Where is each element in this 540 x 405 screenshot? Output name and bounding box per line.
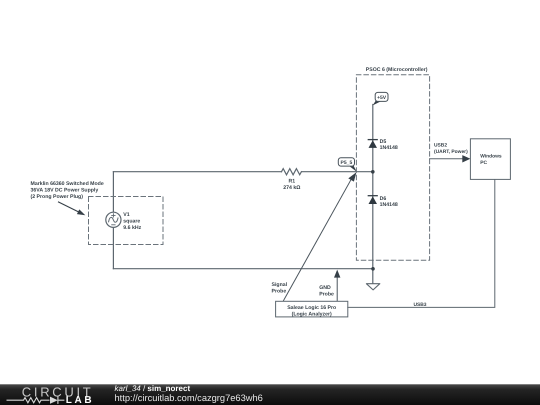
svg-text:V1: V1 bbox=[123, 212, 129, 218]
svg-text:Probe: Probe bbox=[272, 289, 287, 295]
diode D5 bbox=[368, 139, 377, 141]
wire top: V1 branch to P5_5 node bbox=[113, 171, 372, 173]
svg-text:(UART, Power): (UART, Power) bbox=[434, 149, 468, 155]
svg-text:(Logic Analyzer): (Logic Analyzer) bbox=[292, 311, 332, 317]
USB2 wire with arrowhead bbox=[430, 158, 463, 160]
svg-text:USB2: USB2 bbox=[434, 142, 447, 148]
svg-text:+5V: +5V bbox=[377, 95, 387, 101]
svg-text:R1: R1 bbox=[288, 179, 295, 185]
svg-text:http://circuitlab.com/cazgrg7e: http://circuitlab.com/cazgrg7e63wh6 bbox=[115, 393, 263, 403]
net flag P5_5 bbox=[349, 166, 357, 172]
wire bottom: return wire bbox=[113, 268, 373, 270]
svg-text:D6: D6 bbox=[380, 196, 387, 202]
logo diode glyph bbox=[50, 397, 58, 404]
svg-text:USB3: USB3 bbox=[413, 302, 426, 308]
svg-text:Probe: Probe bbox=[319, 292, 334, 298]
voltage source V1 bbox=[106, 212, 121, 227]
PSOC 6 dashed enclosure bbox=[356, 75, 429, 260]
svg-text:1N4148: 1N4148 bbox=[380, 202, 398, 208]
USB3 wire bbox=[348, 179, 495, 307]
diode branch wire bbox=[372, 105, 374, 284]
V1 dashed enclosure bbox=[89, 197, 164, 245]
CircuitLab logo schematic squiggle bbox=[7, 397, 65, 404]
svg-text:PC: PC bbox=[480, 160, 487, 166]
svg-text:1N4148: 1N4148 bbox=[380, 145, 398, 151]
svg-text:GND: GND bbox=[319, 285, 331, 291]
signal probe arrowhead bbox=[348, 172, 356, 181]
svg-text:Signal: Signal bbox=[272, 282, 288, 288]
wire left: V1 branch vertical bbox=[112, 172, 114, 269]
svg-text:P5_5: P5_5 bbox=[341, 160, 353, 166]
svg-text:karl_34 / sim_norect: karl_34 / sim_norect bbox=[115, 384, 191, 393]
GND probe wire with up arrow bbox=[336, 277, 338, 301]
svg-text:PSOC 6 (Microcontroller): PSOC 6 (Microcontroller) bbox=[366, 67, 428, 73]
svg-text:D5: D5 bbox=[380, 139, 387, 145]
ground bbox=[366, 284, 379, 290]
node P5_5 junction dot bbox=[371, 170, 375, 174]
+5V net flag bbox=[373, 101, 381, 106]
Windows PC box bbox=[470, 139, 510, 180]
svg-text:(2 Prong Power Plug): (2 Prong Power Plug) bbox=[31, 194, 84, 200]
svg-text:9.6 kHz: 9.6 kHz bbox=[123, 225, 141, 231]
signal probe wire bbox=[284, 178, 353, 301]
node ground junction dot bbox=[371, 267, 375, 271]
svg-text:Windows: Windows bbox=[480, 153, 502, 159]
svg-text:LAB: LAB bbox=[66, 395, 94, 405]
svg-text:Saleae Logic 16 Pro: Saleae Logic 16 Pro bbox=[287, 305, 336, 311]
diode D6 bbox=[368, 195, 377, 197]
Saleae Logic analyzer box bbox=[276, 301, 348, 317]
svg-text:Marklin 66360 Switched Mode: Marklin 66360 Switched Mode bbox=[31, 181, 104, 187]
svg-text:274 kΩ: 274 kΩ bbox=[283, 185, 300, 191]
resistor R1 bbox=[282, 169, 302, 175]
svg-text:36VA 18V DC Power Supply: 36VA 18V DC Power Supply bbox=[31, 188, 99, 194]
annotation arrow bbox=[59, 202, 80, 212]
svg-text:square: square bbox=[123, 219, 140, 225]
